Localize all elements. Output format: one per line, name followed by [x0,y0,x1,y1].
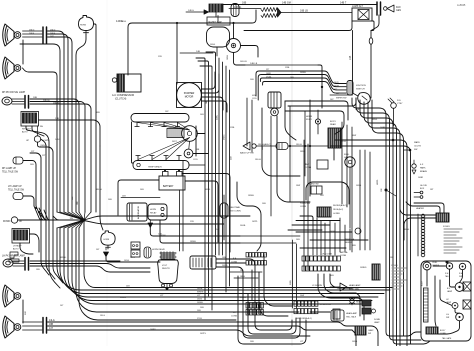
svg-text:18LGL: 18LGL [96,189,103,191]
svg-text:17LB: 17LB [197,318,202,320]
svg-text:18DG: 18DG [240,276,245,278]
svg-text:16PPL: 16PPL [150,329,157,331]
svg-text:NEUTRAL: NEUTRAL [230,206,241,209]
svg-text:16DBL: 16DBL [120,297,127,299]
svg-text:18DBL: 18DBL [248,195,255,197]
svg-text:18LBL: 18LBL [197,288,204,290]
svg-text:ANT: ANT [305,163,310,166]
svg-text:TAIL GATE: TAIL GATE [442,337,452,340]
svg-text:FUSES: FUSES [443,226,450,228]
svg-text:18LGL: 18LGL [296,144,303,146]
svg-text:18DG: 18DG [300,151,306,153]
svg-text:16DBL: 16DBL [197,302,204,304]
svg-text:CONN: CONN [231,262,237,264]
svg-text:14DG: 14DG [188,10,194,12]
svg-text:FUSES: FUSES [391,265,398,267]
svg-text:HEATER: HEATER [416,207,425,210]
svg-text:18DGL: 18DGL [43,100,51,102]
svg-text:WHITE: WHITE [197,292,204,294]
svg-text:HORN: HORN [150,209,156,211]
svg-text:16DG: 16DG [352,341,358,343]
svg-text:12BL: 12BL [290,279,292,285]
svg-text:14B: 14B [349,55,352,60]
svg-text:IGNITION: IGNITION [356,85,366,87]
svg-text:16DBL: 16DBL [300,72,307,74]
svg-text:CTSY: CTSY [397,103,403,105]
svg-text:16DG: 16DG [222,265,228,267]
svg-text:REAR: REAR [330,123,336,126]
svg-text:18LGL(A-B-C): 18LGL(A-B-C) [258,143,271,146]
svg-text:14B: 14B [222,257,226,259]
svg-text:14B GM: 14B GM [282,2,291,5]
svg-text:16LBL: 16LBL [240,225,247,227]
svg-text:GEN: GEN [396,10,401,12]
svg-text:16B LB: 16B LB [300,10,308,13]
svg-text:18LGL: 18LGL [255,159,262,161]
svg-text:18LGL: 18LGL [340,141,347,143]
svg-text:16DG: 16DG [224,134,226,140]
svg-text:SW CONN: SW CONN [230,211,241,213]
svg-text:18W: 18W [296,185,300,187]
svg-text:14B CONN(A-B-C): 14B CONN(A-B-C) [296,317,312,320]
svg-text:14BR: 14BR [418,177,424,179]
svg-text:17LBL: 17LBL [266,77,271,79]
svg-text:VOLT: VOLT [162,265,168,267]
svg-text:TEMP SENDR: TEMP SENDR [148,167,162,169]
svg-text:14B T: 14B T [340,2,347,5]
svg-text:14DG: 14DG [124,260,130,262]
svg-text:FDSR: FDSR [306,119,312,121]
svg-text:BODY: BODY [330,121,337,123]
svg-text:R.S.: R.S. [397,100,401,102]
svg-text:14B: 14B [196,51,200,53]
svg-text:14PPL: 14PPL [200,333,207,335]
svg-text:SWITCH: SWITCH [356,89,365,91]
svg-text:BAT GA: BAT GA [340,251,348,254]
svg-text:14BR: 14BR [355,109,361,111]
svg-text:WIPER SW: WIPER SW [336,98,346,100]
svg-text:16W: 16W [300,295,304,297]
svg-text:14BR: 14BR [380,127,386,129]
svg-text:TELL TALE SW: TELL TALE SW [8,189,25,192]
svg-text:CONN: CONN [231,316,237,318]
svg-text:12BL: 12BL [217,114,219,120]
svg-text:CAMP: CAMP [368,329,374,332]
svg-text:L.H.A CONN: L.H.A CONN [320,303,331,306]
svg-text:16DBL: 16DBL [330,231,337,233]
svg-text:16DG: 16DG [197,299,203,301]
svg-text:ALTERNATOR: ALTERNATOR [137,205,140,219]
svg-text:16BR: 16BR [266,73,271,75]
svg-text:18LG: 18LG [100,315,105,317]
svg-text:16B: 16B [242,2,247,5]
svg-text:LH RED: LH RED [333,213,341,215]
svg-text:A-8045: A-8045 [457,3,466,7]
svg-text:BOX: BOX [420,188,425,190]
svg-text:HORN RELAY: HORN RELAY [152,248,166,251]
svg-text:14PPL: 14PPL [252,221,258,223]
svg-text:RH LAMP UP: RH LAMP UP [2,167,16,170]
svg-text:WATE: WATE [414,141,420,144]
svg-text:14B LB: 14B LB [250,63,258,65]
svg-text:18DBL: 18DBL [160,235,167,237]
svg-text:FUEL: FUEL [433,262,438,264]
svg-text:14DBL: 14DBL [234,6,242,9]
svg-text:HORN: HORN [306,116,313,118]
svg-text:RH PK DIR SIG LAMP: RH PK DIR SIG LAMP [2,91,26,94]
svg-text:18DBL: 18DBL [190,241,197,243]
svg-text:14DG: 14DG [121,21,127,23]
svg-text:14P: 14P [336,93,340,95]
svg-text:COIL: COIL [252,98,258,100]
svg-text:16DG: 16DG [210,44,216,46]
svg-text:HORN: HORN [80,25,86,27]
svg-text:REG/TR: REG/TR [162,268,170,270]
svg-text:L.H: L.H [233,312,237,314]
svg-text:16DR: 16DR [334,86,339,88]
svg-text:14B: 14B [231,156,233,160]
svg-text:PARK: PARK [420,167,426,170]
svg-text:TURN SIG: TURN SIG [300,203,310,205]
svg-text:RADIO CAP: RADIO CAP [209,21,223,24]
svg-text:AUTO: AUTO [22,131,28,134]
svg-text:RH RED(A-B-C): RH RED(A-B-C) [333,204,347,207]
svg-text:LAMP ALT: LAMP ALT [352,5,363,8]
svg-text:TAIL: TAIL [445,275,449,278]
svg-text:TEMP GA: TEMP GA [345,238,355,241]
svg-text:14B LB: 14B LB [240,61,247,63]
svg-text:CONN: CONN [300,206,307,208]
svg-text:(14DG): (14DG) [40,145,47,147]
svg-text:FAN: FAN [396,6,401,9]
svg-text:L2 DKGRN: L2 DKGRN [312,285,323,287]
svg-text:COIL: COIL [193,159,199,161]
svg-text:12B: 12B [25,311,27,315]
svg-text:MOTOR: MOTOR [185,97,194,99]
svg-text:BATTERY: BATTERY [163,185,174,188]
svg-text:LH LAMP UP: LH LAMP UP [8,185,22,188]
svg-text:DOME: DOME [374,319,381,321]
svg-text:HEADLAMP: HEADLAMP [349,284,361,287]
svg-text:CONN: CONN [340,255,347,257]
svg-text:18B: 18B [33,97,37,99]
svg-text:13B: 13B [55,118,59,120]
svg-text:AUTO: AUTO [13,248,19,251]
svg-text:14LG: 14LG [130,257,135,259]
svg-text:LH PK DIR SIG LAMP: LH PK DIR SIG LAMP [2,255,25,258]
svg-text:14DG: 14DG [55,139,61,141]
svg-text:18LGL: 18LGL [240,297,247,299]
svg-text:L8PPL: L8PPL [377,179,379,185]
svg-text:16LR: 16LR [334,82,339,84]
svg-text:IGN: IGN [252,95,256,97]
svg-text:16DG: 16DG [356,185,362,187]
svg-text:SW: SW [368,333,371,335]
svg-text:SW: SW [414,149,417,151]
svg-text:18DGL: 18DGL [60,257,67,259]
svg-text:16R: 16R [320,195,324,197]
svg-text:LAMP: LAMP [447,290,453,293]
svg-text:RELAY: RELAY [150,212,157,215]
svg-text:DOWN: DOWN [3,221,11,223]
svg-text:18LG: 18LG [29,30,35,32]
svg-text:TELL TALE SW: TELL TALE SW [2,171,19,174]
svg-text:UP: UP [19,221,23,223]
svg-text:16DG: 16DG [372,119,378,121]
svg-text:18DBL: 18DBL [53,103,60,105]
svg-text:LAMP: LAMP [374,321,380,324]
svg-text:BRAKE: BRAKE [420,170,428,173]
svg-text:TELL TALE: TELL TALE [346,316,357,319]
svg-text:BACK UP SW: BACK UP SW [240,152,255,155]
svg-text:18LB: 18LB [29,33,35,35]
svg-text:18W: 18W [352,135,356,137]
svg-text:16DG: 16DG [404,229,410,231]
svg-text:UP: UP [26,140,30,142]
svg-text:18LGL(A-C): 18LGL(A-C) [333,208,344,211]
svg-text:BODY: BODY [422,280,424,286]
svg-text:16RED: 16RED [360,267,367,269]
svg-text:HEADLAMP: HEADLAMP [346,312,358,315]
svg-text:STARTER: STARTER [184,92,195,95]
svg-text:CLUTB: CLUTB [414,146,421,148]
svg-text:GLOVE: GLOVE [420,185,428,187]
svg-text:ASSY DBL: ASSY DBL [349,288,360,291]
svg-text:BODY: BODY [440,330,446,332]
svg-text:(CLUTCH): (CLUTCH) [115,98,126,101]
svg-text:SENDR: SENDR [345,242,353,244]
svg-text:I.P.A CONN: I.P.A CONN [322,253,332,256]
svg-text:16DG: 16DG [227,55,229,60]
svg-text:16DG: 16DG [205,189,211,191]
svg-text:HORN: HORN [104,239,110,241]
svg-text:LH HDLP: LH HDLP [13,246,22,248]
